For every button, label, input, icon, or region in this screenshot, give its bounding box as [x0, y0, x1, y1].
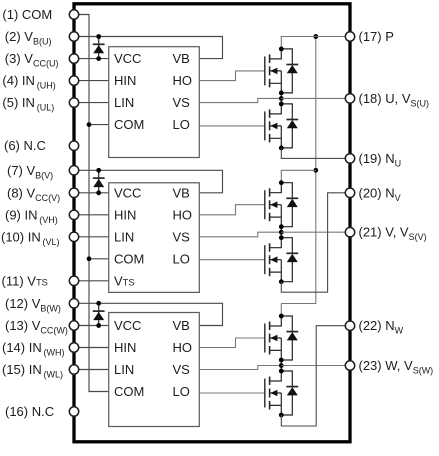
pin 22 terminal	[345, 321, 354, 330]
body diode D5	[281, 104, 292, 148]
junction dot source Q4	[279, 279, 284, 284]
pin 13 terminal	[69, 321, 78, 330]
wire LIN(V) from pin to U2 LIN	[74, 236, 109, 238]
svg-text:(16) N.C: (16) N.C	[5, 404, 54, 419]
svg-text:COM: COM	[114, 251, 144, 266]
wire LO U3 to gate of Q6	[199, 392, 264, 394]
svg-text:LIN: LIN	[114, 229, 134, 244]
junction dot D2 cathode	[96, 168, 101, 173]
junction dot D3 anode	[96, 323, 101, 328]
svg-text:(3) VCC(U): (3) VCC(U)	[5, 51, 59, 69]
MOSFET Q2 gate bar	[264, 111, 266, 140]
svg-text:HO: HO	[173, 340, 193, 355]
svg-text:LIN: LIN	[114, 362, 134, 377]
pin 15 terminal	[69, 365, 78, 374]
junction dot drain Q3	[279, 180, 284, 185]
junction dot source Q1	[279, 91, 284, 96]
svg-text:(1) COM: (1) COM	[2, 7, 52, 22]
junction dot source Q6	[279, 413, 284, 418]
svg-text:(11) VTS: (11) VTS	[2, 273, 48, 288]
wire COM bus tee to driver U2	[89, 258, 109, 260]
wire source Q6 to pin 22 NW	[281, 326, 350, 426]
svg-text:(17) P: (17) P	[359, 29, 394, 44]
pin 2 terminal	[69, 32, 78, 41]
pin 6 terminal	[69, 141, 78, 150]
MOSFET Q2 drain lead	[270, 104, 282, 114]
junction dot node U	[279, 96, 284, 101]
MOSFET Q1 channel	[269, 54, 271, 87]
pin 11 terminal	[69, 276, 78, 285]
wire node P to drain of Q1	[281, 37, 350, 49]
wire LO U1 to gate of Q2	[199, 125, 264, 127]
svg-text:HO: HO	[173, 207, 193, 222]
svg-text:(12) VB(W): (12) VB(W)	[5, 296, 61, 314]
svg-text:LO: LO	[173, 251, 190, 266]
junction dot COM bus at driver U2	[87, 256, 92, 261]
svg-text:VS: VS	[173, 362, 191, 377]
MOSFET Q2 body arrow	[270, 123, 277, 130]
svg-text:VS: VS	[173, 95, 191, 110]
svg-text:(9) IN (VH): (9) IN (VH)	[5, 207, 58, 225]
MOSFET Q3 body lead and source lead	[270, 205, 282, 227]
MOSFET Q3 channel	[269, 188, 271, 221]
wire VCC(V) from pin to U2 VCC	[74, 192, 109, 194]
svg-text:(13) VCC(W): (13) VCC(W)	[5, 318, 68, 336]
pin 14 terminal	[69, 343, 78, 352]
wire source Q2 to pin 19 NU	[281, 148, 350, 159]
wire P bus to high-side drains	[281, 37, 316, 304]
MOSFET Q5 gate bar	[264, 324, 266, 353]
svg-text:VTS: VTS	[114, 273, 135, 288]
wire node W to pin 23	[281, 365, 350, 367]
wire HO U1 to gate of Q1	[199, 71, 264, 81]
pin 12 terminal	[69, 299, 78, 308]
svg-text:VB: VB	[173, 318, 190, 333]
MOSFET Q3 drain lead	[270, 183, 282, 193]
MOSFET Q3 gate bar	[264, 190, 266, 219]
svg-text:VCC: VCC	[114, 185, 141, 200]
body diode D9	[281, 371, 292, 415]
wire node V to pin 21	[281, 231, 350, 233]
wire COM bus tee to driver U1	[89, 124, 109, 126]
svg-text:(21) V, VS(V): (21) V, VS(V)	[359, 225, 427, 243]
svg-text:LIN: LIN	[114, 95, 134, 110]
wire HIN(W) from pin to U3 HIN	[74, 347, 109, 349]
junction dot drain Q2	[279, 102, 284, 107]
svg-text:HIN: HIN	[114, 340, 136, 355]
junction dot drain Q4	[279, 235, 284, 240]
wire VS U1 to phase U node	[199, 98, 281, 102]
junction dot drain Q6	[279, 369, 284, 374]
pin 9 terminal	[69, 210, 78, 219]
MOSFET Q1 body lead and source lead	[270, 71, 282, 93]
wire HO U2 to gate of Q3	[199, 205, 264, 215]
junction dot drain Q5	[279, 314, 284, 319]
junction dot D1 cathode	[96, 34, 101, 39]
junction dot D2 anode	[96, 190, 101, 195]
pin 8 terminal	[69, 188, 78, 197]
body diode D8	[281, 316, 292, 360]
svg-text:VCC: VCC	[114, 318, 141, 333]
wire node U to pin 18	[281, 97, 350, 99]
svg-text:LO: LO	[173, 117, 190, 132]
gate driver IC U1	[109, 47, 200, 158]
wire VB(U) from pin to U1 VB	[74, 37, 223, 59]
wire HIN(U) from pin to U1 HIN	[74, 80, 109, 82]
junction dot source Q5	[279, 358, 284, 363]
junction dot P bus at phase U	[313, 34, 318, 39]
svg-text:(7) VB(V): (7) VB(V)	[7, 163, 53, 181]
gate driver IC U3	[109, 313, 200, 427]
MOSFET Q1 body arrow	[270, 68, 277, 75]
pin 16 terminal	[69, 407, 78, 416]
svg-text:COM: COM	[114, 384, 144, 399]
junction dot source Q3	[279, 224, 284, 229]
MOSFET Q5 body lead and source lead	[270, 338, 282, 360]
pin 4 terminal	[69, 76, 78, 85]
MOSFET Q4 drain lead	[270, 238, 282, 248]
wire phase W top to drain of Q5	[280, 304, 282, 317]
MOSFET Q5 channel	[269, 322, 271, 355]
wire VCC(W) from pin to U3 VCC	[74, 325, 109, 327]
wire LIN(W) from pin to U3 LIN	[74, 369, 109, 371]
svg-text:HIN: HIN	[114, 207, 136, 222]
svg-text:LO: LO	[173, 384, 190, 399]
bootstrap diode D3 (VCC to VB)	[98, 303, 100, 325]
bootstrap diode D1 (VCC to VB)	[98, 37, 100, 59]
wire source Q4 to pin 20 NV	[281, 193, 350, 292]
pin 19 terminal	[345, 154, 354, 163]
svg-text:(14) IN (WH): (14) IN (WH)	[2, 340, 65, 358]
pin 18 terminal	[345, 94, 354, 103]
wire mid trunk phase V	[280, 227, 282, 238]
svg-text:VS: VS	[173, 229, 191, 244]
svg-text:(15) IN (WL): (15) IN (WL)	[2, 362, 63, 380]
wire phase V top to drain of Q3	[281, 170, 316, 182]
svg-text:(8) VCC(V): (8) VCC(V)	[7, 185, 60, 203]
gate driver IC U2	[109, 183, 200, 293]
svg-text:(19) NU: (19) NU	[359, 151, 402, 169]
module package outline	[74, 4, 350, 442]
svg-text:HIN: HIN	[114, 73, 136, 88]
svg-text:(23) W, VS(W): (23) W, VS(W)	[359, 358, 434, 376]
svg-text:VB: VB	[173, 51, 190, 66]
svg-text:(5) IN (UL): (5) IN (UL)	[2, 95, 54, 113]
junction dot D1 anode	[96, 56, 101, 61]
MOSFET Q2 channel	[269, 109, 271, 142]
svg-text:VCC: VCC	[114, 51, 141, 66]
wire LO U2 to gate of Q4	[199, 259, 264, 261]
pin 5 terminal	[69, 98, 78, 107]
junction dot D3 cathode	[96, 301, 101, 306]
wire VB(V) from pin to U2 VB	[74, 170, 223, 193]
pin 20 terminal	[345, 188, 354, 197]
MOSFET Q6 gate bar	[264, 379, 266, 408]
wire mid trunk phase U	[280, 93, 282, 104]
pin 21 terminal	[345, 228, 354, 237]
MOSFET Q5 body arrow	[270, 335, 277, 342]
pin 10 terminal	[69, 232, 78, 241]
MOSFET Q4 channel	[269, 243, 271, 276]
MOSFET Q6 channel	[269, 377, 271, 410]
junction dot P bus at phase V	[313, 168, 318, 173]
junction dot source Q2	[279, 146, 284, 151]
svg-text:(22) NW: (22) NW	[359, 318, 404, 336]
MOSFET Q5 drain lead	[270, 316, 282, 326]
svg-text:VB: VB	[173, 185, 190, 200]
svg-text:(2) VB(U): (2) VB(U)	[5, 29, 52, 47]
MOSFET Q2 body lead and source lead	[270, 126, 282, 148]
wire COM bus from pin 1 to drivers	[74, 15, 109, 392]
pin 17 terminal	[345, 32, 354, 41]
junction dot node W	[279, 363, 284, 368]
pin 1 terminal	[69, 10, 78, 19]
svg-text:COM: COM	[114, 117, 144, 132]
svg-text:HO: HO	[173, 73, 193, 88]
junction dot drain Q1	[279, 47, 284, 52]
pin 7 terminal	[69, 166, 78, 175]
svg-text:(18) U, VS(U): (18) U, VS(U)	[359, 91, 430, 109]
MOSFET Q1 drain lead	[270, 49, 282, 59]
body diode D7	[281, 238, 292, 282]
MOSFET Q6 body lead and source lead	[270, 393, 282, 415]
wire VB(W) from pin to U3 VB	[74, 303, 223, 325]
pin 3 terminal	[69, 54, 78, 63]
svg-text:(20) NV: (20) NV	[359, 185, 401, 203]
svg-text:(10) IN (VL): (10) IN (VL)	[1, 229, 60, 247]
junction dot node V	[279, 230, 284, 235]
wire HIN(V) from pin to U2 HIN	[74, 214, 109, 216]
wire VTS from pin 11 to U2 VTS	[74, 280, 109, 282]
MOSFET Q1 gate bar	[264, 56, 266, 85]
wire mid trunk phase W	[280, 360, 282, 371]
wire HO U3 to gate of Q5	[199, 338, 264, 348]
wire LIN(U) from pin to U1 LIN	[74, 102, 109, 104]
pin 23 terminal	[345, 361, 354, 370]
wire VS U2 to phase V node	[199, 232, 281, 237]
wire VCC(U) from pin to U1 VCC	[74, 58, 109, 60]
MOSFET Q4 body lead and source lead	[270, 260, 282, 282]
junction dot COM bus at driver U1	[87, 122, 92, 127]
MOSFET Q4 body arrow	[270, 256, 277, 263]
body diode D4	[281, 49, 292, 93]
bootstrap diode D2 (VCC to VB)	[98, 170, 100, 193]
wire VS U3 to phase W node	[199, 366, 281, 370]
MOSFET Q4 gate bar	[264, 245, 266, 274]
MOSFET Q3 body arrow	[270, 201, 277, 208]
body diode D6	[281, 183, 292, 227]
MOSFET Q6 body arrow	[270, 390, 277, 397]
MOSFET Q6 drain lead	[270, 371, 282, 381]
svg-text:(6) N.C: (6) N.C	[4, 138, 46, 153]
svg-text:(4) IN (UH): (4) IN (UH)	[2, 73, 55, 91]
